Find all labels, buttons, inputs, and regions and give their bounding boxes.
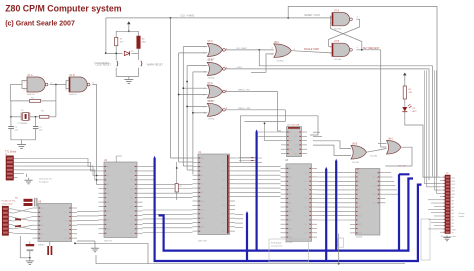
wire VCC to R5 [404,81,406,87]
wire control bus to CPU pin 5 [192,173,194,175]
bus entry wedge V3 [246,211,248,214]
svg-text:A4: A4 [290,148,292,151]
svg-text:A10: A10 [201,200,204,203]
junction U5D in1 [186,106,188,108]
junction pullup [176,167,178,169]
junction decoder feed top [264,122,266,124]
svg-text:WARM RESET: WARM RESET [147,64,164,67]
svg-text:D1: D1 [130,171,132,173]
svg-text:A12: A12 [452,186,455,189]
wire top rail CLK net [106,17,332,19]
wire RAM gnd drop [338,234,340,264]
ground J1 [24,178,32,184]
nand gate U7B [332,43,352,56]
VCC arrow reset [127,21,131,31]
svg-text:A14: A14 [358,232,361,235]
junction U5C out branch [258,49,260,51]
IC U6 RAM [350,169,386,236]
svg-text:ROM paged: ROM paged [271,243,281,245]
wire reset bottom rail [116,76,138,78]
svg-text:D5: D5 [373,194,375,196]
label group U6A pin numbers [272,47,296,56]
svg-text:D5: D5 [295,153,297,155]
wire left switch to bottom [115,68,117,77]
svg-text:A6: A6 [452,206,454,209]
wire U2 out to U6B in2 [313,145,351,155]
svg-text:SINGLE STEP: SINGLE STEP [304,49,320,51]
wire U2 out to U6B in1 [313,141,351,149]
wire reset row right [132,52,139,54]
nand gate U7A [332,13,352,26]
svg-text:74HC00: 74HC00 [69,94,78,96]
wire reset row left [106,52,123,54]
bus blue vertical V2 [159,215,164,250]
wire group J3 left stubs [428,200,440,229]
wire group D0 D1 stubs to bus [239,158,257,161]
switch COLD RESET [117,61,118,67]
wire U6C out to RAM CS [385,147,412,166]
svg-text:D7: D7 [223,188,225,190]
svg-text:A10: A10 [289,210,292,213]
ground oscillator [17,142,26,149]
diode D1 [124,51,129,55]
wire U1A out to U1B in [50,84,66,86]
svg-text:D5: D5 [65,229,67,231]
wire control bus to CPU pin 4 [187,169,192,171]
wire U6C in1 [378,143,387,145]
or gate U6A [274,44,292,58]
wire U5A out [225,91,277,93]
wire R1 top stub [115,31,117,37]
svg-text:A4: A4 [41,224,43,227]
svg-text:D7: D7 [130,197,132,199]
bus blue vertical V1 [154,158,156,261]
svg-text:throughput: throughput [39,180,49,183]
svg-text:A0: A0 [201,157,203,160]
svg-text:74LS32: 74LS32 [208,78,216,80]
junction U5A in2 [178,94,180,96]
bus entry wedge V6 [335,159,337,162]
wire LED down [405,112,440,177]
capacitor C2 [33,127,39,134]
wire U8 gnd stub [94,241,96,246]
wire R3 left [10,100,29,102]
capacitor C1 [8,127,14,134]
wire key request down [381,50,387,147]
resistor R4 osc [39,115,49,118]
nor gate U5 D [207,103,225,116]
svg-text:Default for this: Default for this [39,178,52,181]
wire U6A out to U7B [291,51,332,53]
label group J3 pin names [452,177,457,235]
wire U5C out to U6A [225,49,273,51]
wire feedback stub [251,71,266,73]
svg-text:MREQ - RD: MREQ - RD [238,90,250,92]
svg-text:A7: A7 [452,203,454,206]
svg-text:RESET / HALT: RESET / HALT [305,14,321,17]
svg-text:D1: D1 [223,162,225,164]
svg-text:A4: A4 [107,183,109,186]
nor gate U5 C [207,43,225,56]
wire group CPU to ROM address bus [235,158,281,197]
resistor R3 [29,100,40,103]
switch WARM RESET [141,61,142,67]
crystal X1 [21,113,30,121]
junction C2 top [35,116,37,118]
svg-text:A0: A0 [290,131,292,134]
wire U1B out clock down to U4 [92,85,98,185]
wire group U4 to data bus [143,167,193,198]
svg-text:D3: D3 [65,221,67,223]
bus blue vertical V5 [325,169,327,261]
wire gnd return left stub [95,255,97,264]
resistor R7 [175,184,178,192]
svg-text:D3: D3 [373,185,375,187]
wire C1 drop [10,101,12,126]
svg-text:A13: A13 [452,183,455,186]
wire bottom mesh v1 [147,243,149,263]
svg-text:IORQ: IORQ [237,67,243,69]
svg-text:D7: D7 [305,198,307,200]
svg-text:D1: D1 [305,207,307,209]
svg-text:74LS32: 74LS32 [208,119,216,121]
svg-text:ACT: ACT [413,110,418,113]
ground U8 right [91,246,99,252]
ground reset [124,77,133,84]
svg-text:D1: D1 [65,212,67,214]
resistor R8 [24,199,33,202]
svg-text:header: header [459,215,465,218]
svg-text:A0: A0 [358,172,360,175]
svg-text:74LS32: 74LS32 [276,61,284,63]
wire R2 top stub [138,31,140,36]
svg-text:A0: A0 [289,167,291,170]
wire U5A in1 [183,87,207,89]
or gate U6B [351,146,367,160]
wire C5 top [29,242,31,245]
svg-text:D5: D5 [305,190,307,192]
svg-text:A15: A15 [452,177,455,180]
svg-text:D3: D3 [130,215,132,217]
nor gate U5 A [207,85,225,98]
svg-text:TTL Serial: TTL Serial [5,151,16,154]
ground J3 [443,235,450,241]
svg-text:D5: D5 [223,214,225,216]
svg-text:D3: D3 [223,171,225,173]
svg-text:U7 B: U7 B [334,41,340,43]
junction U5D in2 [192,112,194,114]
svg-text:D3: D3 [305,215,307,217]
svg-text:A5: A5 [452,209,454,212]
bus entry wedge V1 [154,156,156,159]
svg-text:68B50: 68B50 [38,244,45,246]
wire U1B in1 stub [66,80,69,82]
svg-text:A2: A2 [107,174,109,177]
wire U5B in2 [193,71,207,73]
svg-text:A4: A4 [358,189,360,192]
svg-text:MREQ - WR: MREQ - WR [238,108,251,110]
note box under ROM [269,239,309,262]
VCC arrow LED [403,73,407,81]
wire caps to ground rail [11,133,36,140]
wire decoder feed [245,120,286,122]
wire U5D out [225,109,285,111]
bus blue vertical V7 [399,174,410,250]
bus blue vertical V6 [335,161,337,251]
wire group decoder inputs from data bus [258,123,281,140]
svg-text:D7: D7 [305,233,307,235]
svg-text:74LS32: 74LS32 [370,156,378,158]
wire U4 top VCC stub [116,156,122,162]
nand gate U1A [27,77,48,92]
svg-text:D5: D5 [130,189,132,191]
svg-text:GND: GND [452,229,457,231]
wire U5D in1 [187,106,207,108]
svg-text:A9: A9 [452,196,454,199]
svg-text:U6 C: U6 C [388,139,394,141]
junction clock/serial rows [96,175,98,177]
wire control bus vertical 1 [169,18,171,158]
wire latch top loop [288,6,437,176]
svg-text:D7: D7 [373,203,375,205]
svg-text:A6: A6 [41,233,43,236]
wire control bus vertical 4 [186,66,188,170]
wire osc left vertical [9,85,11,101]
svg-text:J3 expansion bus: J3 expansion bus [441,236,457,238]
wire control bus vertical 3 [182,47,184,166]
wire osc mid vertical [55,85,57,117]
svg-text:D3: D3 [223,205,225,207]
wire U2 out stub2 [313,136,322,138]
wire U8 right gnd [77,240,95,242]
capacitor C5 electrolytic [26,244,35,251]
label group U7 pin numbers [330,16,359,55]
wire group RAM to connector [385,173,398,195]
wire group U4 to CPU control [143,210,193,232]
resistor R1 [115,37,118,45]
svg-text:D7: D7 [223,222,225,224]
svg-text:A8: A8 [358,206,360,209]
svg-text:A4: A4 [452,212,454,215]
bus blue rail B bottom [154,185,422,261]
svg-text:D3: D3 [305,181,307,183]
svg-text:A0: A0 [107,165,109,168]
wire U5D out down [284,110,286,122]
wire U7B out cross to U7A in [331,16,362,50]
wire X2 top [49,242,51,247]
svg-text:A8: A8 [289,202,291,205]
bus blue rail A upper [163,179,414,251]
svg-text:A11: A11 [452,190,455,193]
svg-text:A6: A6 [201,183,203,186]
svg-text:A8: A8 [452,199,454,202]
svg-text:A1: A1 [452,222,454,225]
svg-text:A12: A12 [358,223,361,226]
svg-text:D3: D3 [130,180,132,182]
svg-text:A12: A12 [107,219,110,222]
svg-text:Prolific 5V TTL: Prolific 5V TTL [2,200,17,203]
svg-text:D1: D1 [130,206,132,208]
svg-text:74LS00: 74LS00 [334,59,342,61]
wire cold-reset drop [105,18,107,53]
svg-text:7.3728MHZ: 7.3728MHZ [17,123,28,125]
junction U7B out [361,49,363,51]
wire pullup bottom [176,192,178,200]
wire U5B in1 [187,65,207,67]
svg-text:40 way: 40 way [459,213,465,215]
svg-text:A14: A14 [289,227,292,230]
connector J2 USB serial [2,206,12,235]
svg-text:M1 - WAIT: M1 - WAIT [237,47,248,50]
svg-text:74LS00: 74LS00 [334,28,342,30]
junction ground return [338,263,340,265]
connector J1 TTL serial [6,156,18,180]
wire crystal left [10,116,21,118]
wire U7B out right [356,49,381,51]
svg-text:(c) Grant Searle 2007: (c) Grant Searle 2007 [5,20,75,27]
svg-text:D5: D5 [223,179,225,181]
wire C2 drop [35,117,37,126]
wire J1 ground stub [26,174,28,177]
svg-text:A2: A2 [358,180,360,183]
wire control bus to CPU pin 3 [183,165,192,167]
resistor R9 [24,203,33,206]
wire U5B out long bus inner [225,69,429,180]
wire U5A in2 [179,94,208,96]
wire control bus to CPU pin 2 [179,161,193,163]
svg-text:CLK / 4 MHZ: CLK / 4 MHZ [181,15,195,18]
svg-text:A6: A6 [358,197,360,200]
resistor R5 [403,86,406,99]
svg-text:A14: A14 [452,180,455,183]
bus entry wedge V4 [256,129,258,132]
svg-text:74LS32: 74LS32 [352,162,360,164]
wire U1A input bracket [22,81,27,89]
svg-text:U5 D: U5 D [208,101,214,103]
wire group J3 feed verticals [425,71,441,194]
svg-text:A8: A8 [107,201,109,204]
wire R1-R2 top [116,30,139,32]
junction R1/diode [115,53,117,55]
wire group ROM to RAM bus [317,173,350,220]
svg-text:U1 A: U1 A [28,74,33,77]
junction cold reset [105,52,107,54]
note box right [421,219,430,260]
wire R3 right [41,100,56,102]
junction osc mid [55,84,57,86]
svg-text:A0: A0 [41,207,43,210]
svg-text:U7 A: U7 A [334,10,339,13]
bus blue vertical V3 [246,213,248,261]
svg-text:A14: A14 [107,228,110,231]
svg-text:A12: A12 [289,219,292,222]
svg-text:D5: D5 [305,224,307,226]
svg-text:A3: A3 [452,215,454,218]
wire control bus vertical 5 [192,72,194,174]
svg-text:A4: A4 [289,184,291,187]
svg-text:A2: A2 [452,219,454,222]
LED D2 [402,104,411,112]
svg-text:A8: A8 [201,191,203,194]
svg-text:U5 C: U5 C [208,41,214,43]
wire U7A out cross to U7B in [329,19,360,46]
resistor R2 [137,36,141,49]
note box under RAM [338,238,344,247]
nor gate U5 B [207,62,225,75]
wire J2 gnd down [20,236,30,258]
junction C5 ground [29,257,31,259]
svg-text:A10: A10 [107,210,110,213]
IC U2 74LS138 [281,127,307,157]
wire U1B input bracket [66,81,69,89]
wire R2 bottom [138,49,140,61]
svg-text:A10: A10 [358,215,361,218]
svg-text:Z80 PIO: Z80 PIO [104,241,112,243]
svg-text:D0 - D7: D0 - D7 [398,166,406,168]
svg-text:U5 A: U5 A [208,82,213,85]
svg-text:D5: D5 [130,224,132,226]
wire crystal to R4 [30,116,40,118]
IC U8 68B50 ACIA [33,204,78,242]
wire U5A out down to U2 [278,92,281,132]
wire group J2 crossover to U8 [13,208,33,234]
svg-text:out after boot: out after boot [271,244,283,247]
crystal X2 [47,246,52,255]
wire long bus right outer [259,50,432,177]
wire osc feedback left [10,84,22,86]
IC U4 CTC/PIO [99,162,143,238]
svg-text:A14: A14 [201,217,204,220]
svg-text:U1 B: U1 B [70,75,76,77]
wire decoder loop left [239,116,241,162]
wire U5D in2 [193,112,207,114]
junction rail/CLK drop [170,17,172,19]
svg-text:D1: D1 [223,197,225,199]
wire ground return long [96,263,405,265]
svg-text:D1: D1 [305,172,307,174]
junction rail/latch loop [287,17,289,19]
wire U2 out stub1 [313,131,320,133]
svg-text:serial cable: serial cable [2,202,14,205]
junction VCC/top of R1 R2 [128,30,130,32]
svg-text:A16: A16 [289,236,292,239]
svg-text:U6 B: U6 B [352,144,358,146]
svg-text:D7: D7 [130,233,132,235]
svg-text:D1: D1 [295,136,297,138]
svg-text:A2: A2 [289,176,291,179]
svg-text:A2: A2 [290,139,292,142]
wire U5C in2 [179,52,208,54]
junction clock cross [96,179,98,181]
svg-text:A2: A2 [41,215,43,218]
wire ground stem osc [21,140,23,142]
wire pullup top [176,162,178,184]
svg-text:A4: A4 [201,174,203,177]
svg-text:D3: D3 [295,145,297,147]
wire control bus to CPU pin 1 [170,157,192,159]
svg-text:Z80 CP/M Computer system: Z80 CP/M Computer system [5,3,122,13]
svg-text:A12: A12 [201,208,204,211]
ground C5 [26,258,34,264]
svg-text:KEY REQUEST: KEY REQUEST [363,48,380,50]
or gate U6C [387,141,402,155]
svg-text:A6: A6 [107,192,109,195]
svg-text:74HC00: 74HC00 [27,94,36,96]
junction bottom mesh [74,242,76,244]
wire right switch to bottom [138,68,140,77]
nand gate U1B [69,77,90,92]
svg-text:62256: 62256 [356,237,363,239]
